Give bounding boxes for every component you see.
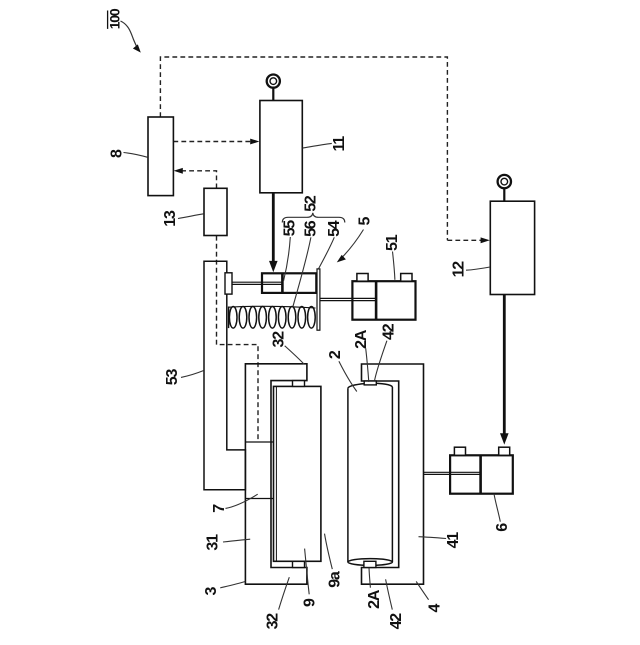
svg-text:42: 42	[388, 613, 405, 630]
mount tab on bar 53	[225, 273, 232, 294]
piston rod 53 to cylinder 52	[232, 281, 282, 283]
cylinder 51 feet	[357, 274, 368, 282]
dashed arrow 8 to 11	[173, 141, 251, 143]
piston rod 54 to cylinder 51	[320, 297, 376, 299]
roller 2 body	[347, 388, 349, 562]
shaft 2A bottom	[364, 561, 376, 567]
svg-text:52: 52	[303, 195, 320, 212]
motor 12 top circle	[498, 175, 511, 188]
bearing 32 bottom	[293, 561, 305, 567]
bracket 4 (right C-channel)	[362, 364, 424, 584]
dashed control line top rail (8 to 12 loop)	[160, 57, 447, 240]
svg-text:51: 51	[384, 234, 401, 251]
svg-text:2: 2	[327, 350, 344, 359]
shaft 2A top	[364, 381, 376, 385]
motor 11 top circle	[267, 75, 280, 88]
leader 55 to piston	[284, 237, 291, 281]
leader arrow from 100	[121, 21, 139, 50]
svg-text:2A: 2A	[353, 329, 370, 349]
brace grouping 55 56 54 under 52	[282, 213, 345, 223]
svg-text:11: 11	[331, 136, 348, 152]
box 11 (motor)	[260, 101, 302, 193]
svg-text:55: 55	[282, 220, 299, 237]
arrow 11 down to cylinder 52	[272, 193, 275, 262]
svg-text:13: 13	[162, 210, 179, 227]
svg-text:31: 31	[204, 534, 221, 551]
roller 2 bottom end ellipse	[348, 559, 393, 566]
dashed arrow 13 to 8	[182, 171, 217, 189]
piston rod bracket 4 to cylinder 6	[423, 471, 480, 473]
piston inside cylinder 6	[479, 455, 482, 493]
spring 56	[228, 307, 230, 329]
svg-text:42: 42	[381, 323, 398, 340]
svg-text:4: 4	[426, 603, 443, 612]
bracket 3 (left C-channel)	[245, 364, 307, 584]
arrow 12 down to cylinder 6	[503, 295, 506, 434]
divider line 7 lower	[245, 498, 273, 500]
box 12 (motor)	[490, 201, 534, 294]
leader 56 to spring	[293, 237, 311, 306]
bearing 32 top	[293, 381, 305, 387]
piston 55 inside cylinder 52	[281, 273, 284, 293]
divider line 7 upper	[245, 441, 273, 443]
svg-text:53: 53	[164, 369, 181, 386]
svg-text:54: 54	[326, 220, 343, 237]
leader 54 to plate	[319, 237, 335, 268]
box 8	[148, 117, 173, 196]
svg-text:100: 100	[107, 8, 123, 29]
cylinder 6 feet	[454, 447, 465, 455]
svg-text:41: 41	[445, 532, 462, 549]
svg-text:6: 6	[494, 523, 511, 532]
dashed line 13 down to frame	[217, 236, 259, 442]
svg-text:2A: 2A	[366, 589, 383, 609]
plate 54	[317, 269, 320, 330]
svg-text:8: 8	[109, 149, 126, 158]
svg-text:7: 7	[211, 504, 228, 513]
piston inside cylinder 51	[375, 281, 378, 320]
cylinder 52	[262, 273, 316, 293]
svg-text:12: 12	[451, 261, 468, 278]
svg-text:32: 32	[270, 331, 287, 348]
svg-text:3: 3	[203, 587, 220, 596]
dashed arrow into box 12	[447, 239, 482, 241]
cylinder 51	[352, 281, 415, 320]
cylinder 6	[450, 455, 513, 493]
svg-text:5: 5	[356, 216, 373, 225]
svg-text:56: 56	[303, 220, 320, 237]
frame bar 53	[204, 261, 245, 489]
roller 9	[274, 386, 321, 561]
box 13	[204, 188, 227, 235]
svg-text:9: 9	[302, 598, 319, 607]
svg-text:9a: 9a	[327, 571, 344, 588]
svg-text:32: 32	[264, 613, 281, 630]
